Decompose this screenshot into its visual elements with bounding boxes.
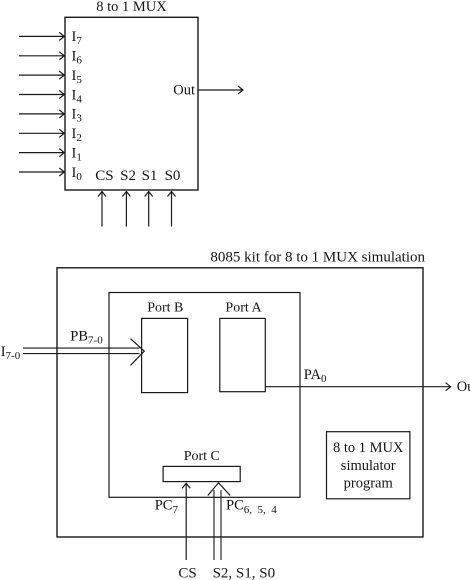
input wire I7 <box>19 32 64 40</box>
svg-text:I7-0: I7-0 <box>1 344 21 362</box>
label I2 <box>72 126 82 144</box>
label I5 <box>72 68 83 86</box>
select wire CS (up arrow) <box>98 192 106 227</box>
input wire I1 <box>19 149 64 157</box>
svg-text:Port A: Port A <box>225 300 262 315</box>
label Out (kit output) <box>457 379 470 395</box>
svg-text:PB7-0: PB7-0 <box>70 328 103 346</box>
input wire I6 <box>19 52 64 60</box>
label Port A <box>225 300 262 315</box>
svg-text:I2: I2 <box>72 126 82 144</box>
svg-text:CS: CS <box>95 168 113 184</box>
input wire I0 <box>19 168 64 176</box>
simulator program box <box>327 432 410 499</box>
label PB7-0 <box>70 328 103 346</box>
svg-text:program: program <box>344 476 394 492</box>
svg-text:PC7: PC7 <box>155 498 179 516</box>
svg-text:S2, S1, S0: S2, S1, S0 <box>213 566 276 580</box>
label S2, S1, S0 (bottom) <box>213 566 276 580</box>
bus wire S2,S1,S0 to PC6,5,4 (double line) <box>214 490 221 560</box>
svg-text:PC6, 5, 4: PC6, 5, 4 <box>226 498 277 516</box>
label I3 <box>72 107 83 125</box>
label I7-0 <box>1 344 21 362</box>
svg-text:I7: I7 <box>72 29 83 47</box>
output wire Out <box>199 86 243 94</box>
svg-text:S2: S2 <box>120 168 136 184</box>
mux box U1 <box>65 17 198 190</box>
svg-text:PA0: PA0 <box>304 367 327 385</box>
svg-text:8085 kit for 8 to 1 MUX simula: 8085 kit for 8 to 1 MUX simulation <box>210 250 425 266</box>
label PA0 <box>304 367 327 385</box>
label I6 <box>72 49 83 67</box>
simulator program box text <box>333 440 404 492</box>
pin label S0 <box>165 168 181 184</box>
ports inner box <box>109 293 300 498</box>
pin label S2 <box>120 168 136 184</box>
bus wire I7-0 to Port B (double line) <box>23 348 140 354</box>
8085 kit outer box <box>57 268 423 537</box>
bus arrowhead into Port B <box>131 339 145 366</box>
label PC7 <box>155 498 179 516</box>
svg-text:S0: S0 <box>165 168 181 184</box>
svg-text:I0: I0 <box>72 165 83 183</box>
svg-text:I1: I1 <box>72 145 82 163</box>
bus arrowhead into PC6,5,4 <box>208 483 230 496</box>
label PC6,5,4 <box>226 498 277 516</box>
svg-text:8 to 1 MUX: 8 to 1 MUX <box>96 0 167 15</box>
input wire I3 <box>19 110 64 118</box>
Port B register box <box>142 318 188 392</box>
caption: 8085 kit for 8 to 1 MUX simulation <box>210 250 425 266</box>
input wire I5 <box>19 71 64 79</box>
title: 8 to 1 MUX <box>96 0 167 15</box>
Port A register box <box>220 318 265 391</box>
svg-text:S1: S1 <box>142 168 158 184</box>
svg-text:Out: Out <box>457 379 470 395</box>
wire CS to PC7 (up arrow) <box>182 483 190 560</box>
select wire S1 (up arrow) <box>145 192 153 227</box>
label I0 <box>72 165 83 183</box>
label Out (mux output pin) <box>173 83 195 99</box>
svg-text:I4: I4 <box>72 87 83 105</box>
label CS (bottom) <box>178 566 196 580</box>
Port C register box <box>163 466 240 481</box>
select wire S0 (up arrow) <box>168 192 176 227</box>
svg-text:I3: I3 <box>72 107 83 125</box>
svg-text:8 to 1 MUX: 8 to 1 MUX <box>333 440 404 456</box>
label Port C <box>184 449 220 464</box>
select wire S2 (up arrow) <box>122 192 130 227</box>
svg-text:simulator: simulator <box>341 458 396 474</box>
input wire I2 <box>19 129 64 137</box>
pin label CS <box>95 168 113 184</box>
svg-text:Port B: Port B <box>147 300 183 315</box>
label I4 <box>72 87 83 105</box>
svg-text:Port C: Port C <box>184 449 220 464</box>
label Port B <box>147 300 183 315</box>
input wire I4 <box>19 91 64 99</box>
wire PA0 to Out <box>265 383 450 391</box>
svg-text:Out: Out <box>173 83 195 99</box>
pin label S1 <box>142 168 158 184</box>
svg-text:I6: I6 <box>72 49 83 67</box>
svg-text:I5: I5 <box>72 68 83 86</box>
label I7 <box>72 29 83 47</box>
svg-text:CS: CS <box>178 566 196 580</box>
label I1 <box>72 145 82 163</box>
